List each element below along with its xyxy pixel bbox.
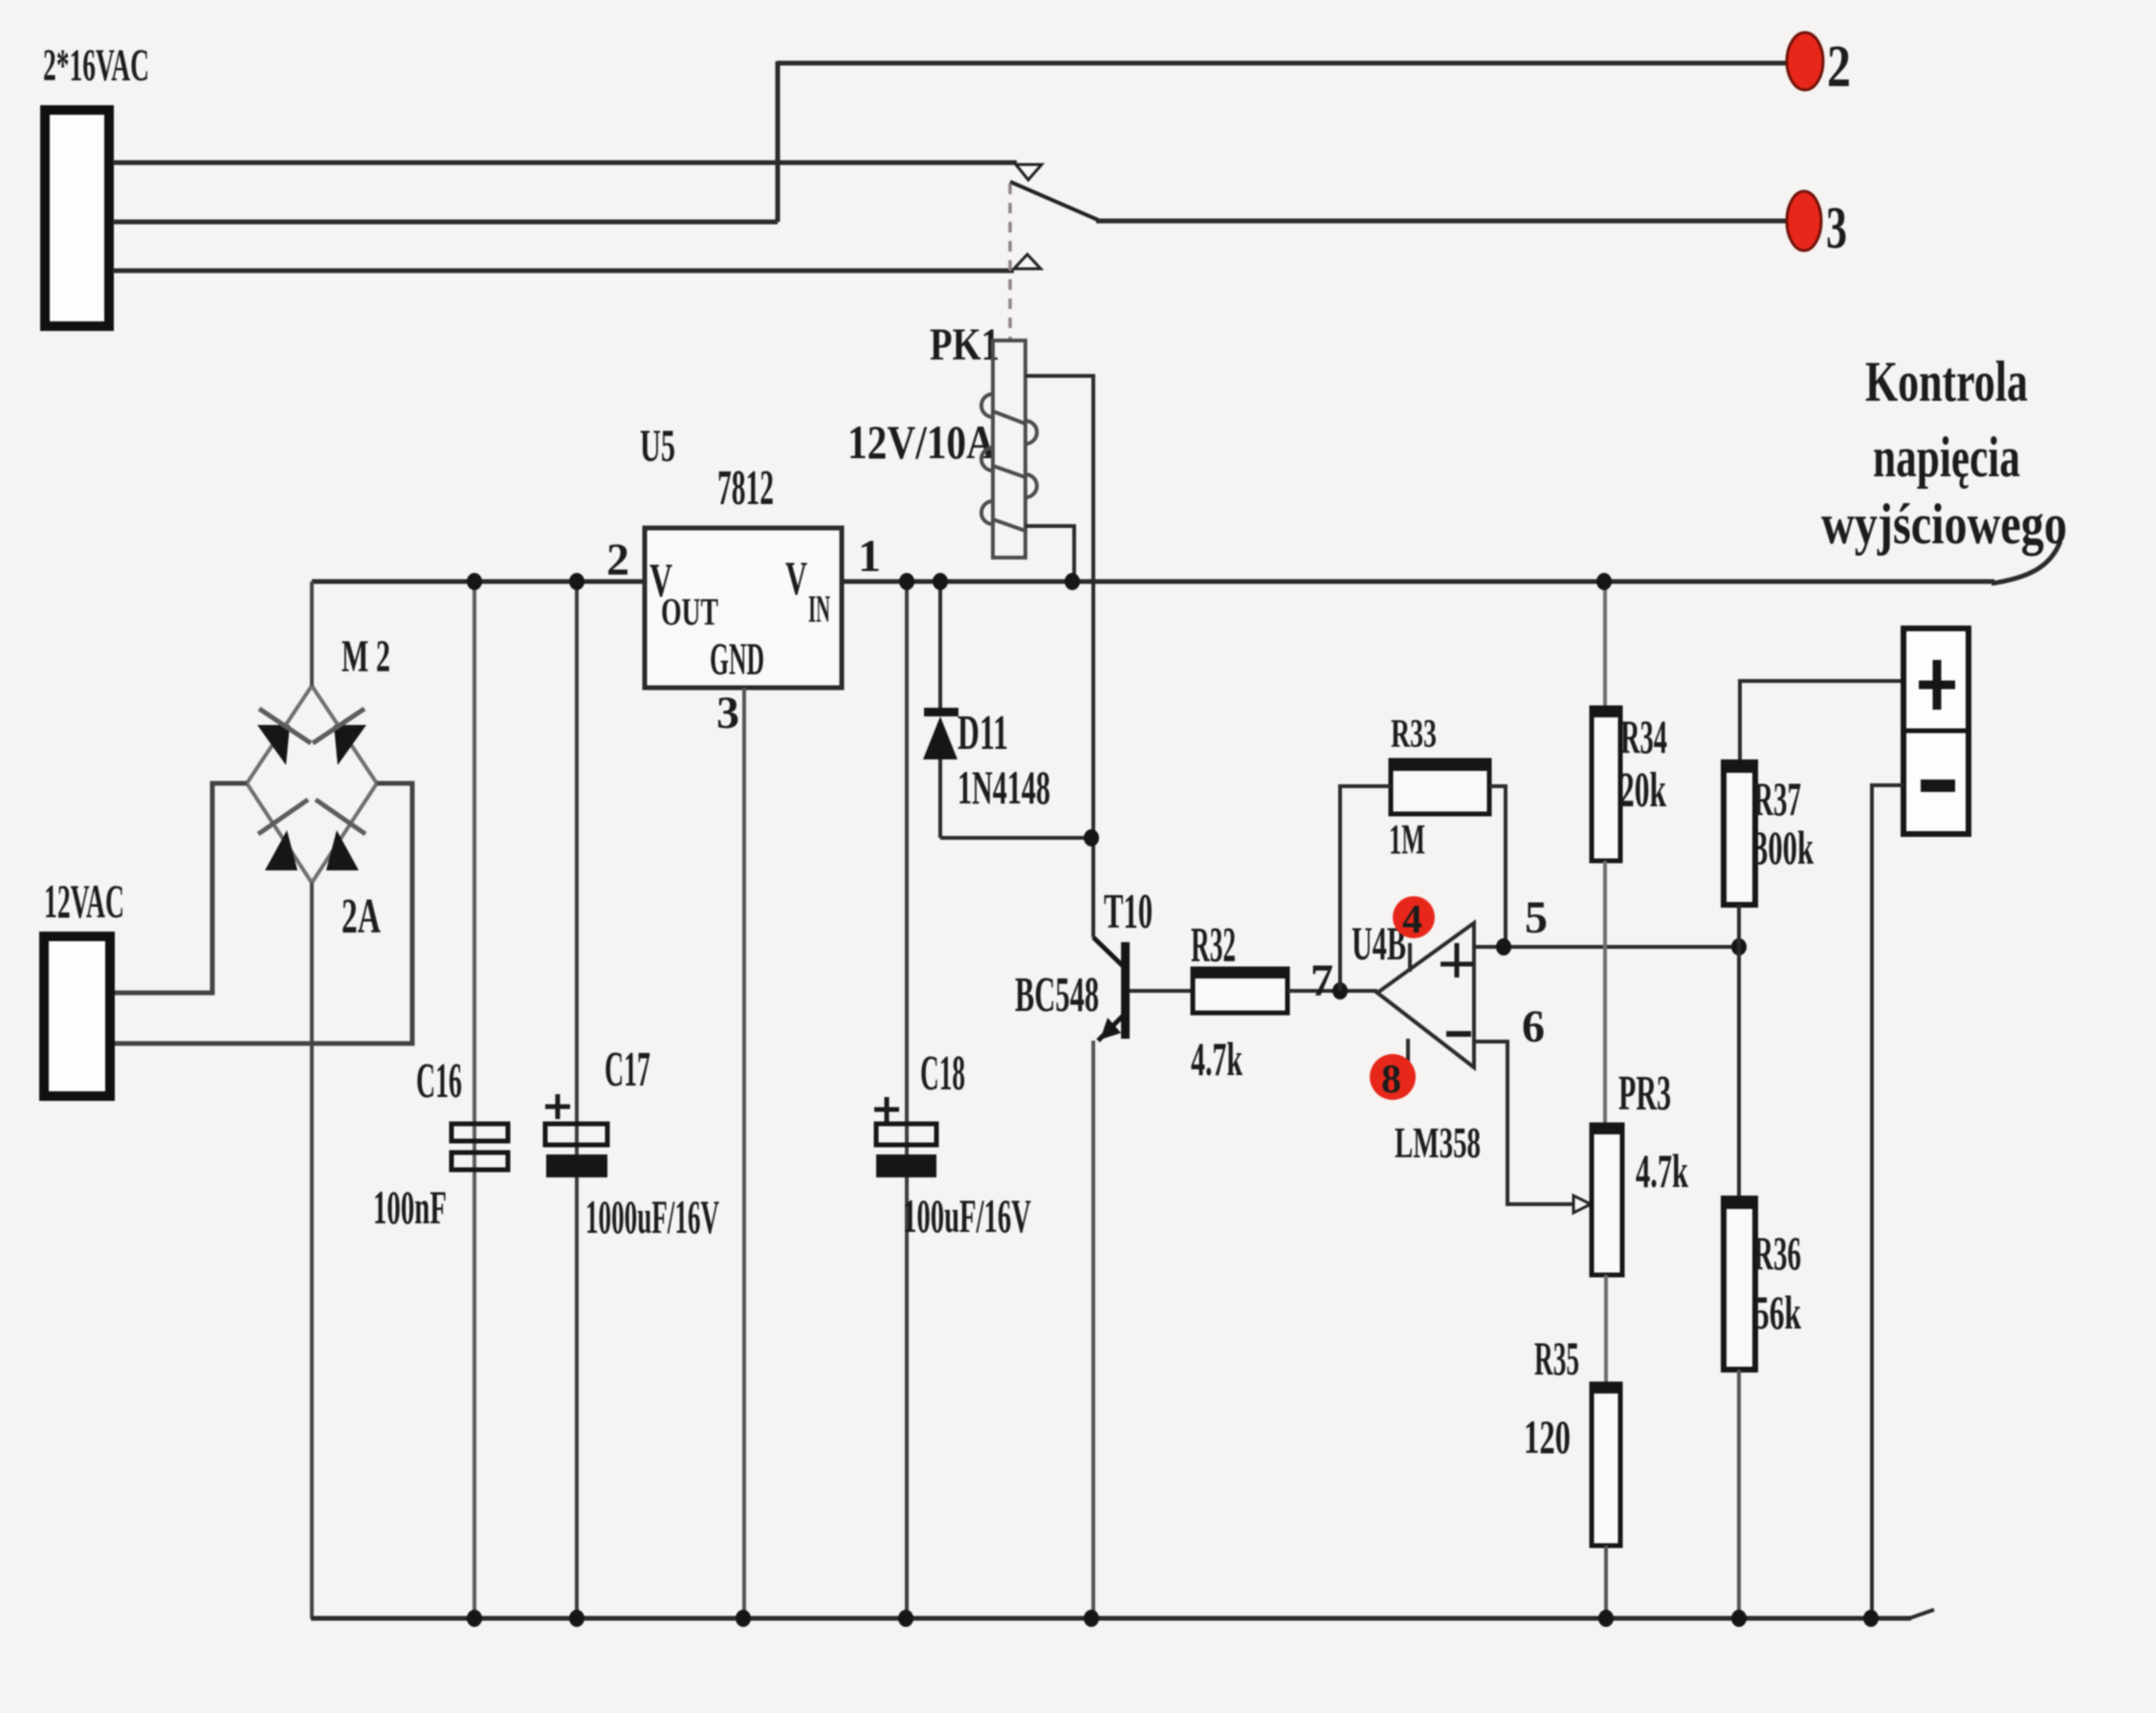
capacitor C18 branch wire: [905, 582, 909, 1618]
bus junction GND pin: [736, 1610, 751, 1627]
op-amp plus input mark: [1441, 943, 1473, 977]
svg-text:PR3: PR3: [1618, 1066, 1671, 1121]
capacitor C18 plus sign: [874, 1097, 899, 1122]
wire bridge bottom to bus: [310, 883, 314, 1618]
svg-text:V: V: [785, 551, 807, 604]
ground bus: [311, 1616, 1911, 1621]
svg-text:3: 3: [1826, 196, 1847, 261]
svg-text:napięcia: napięcia: [1873, 426, 2020, 489]
wire bridge right to 12VAC bottom: [114, 783, 412, 1043]
rail junction relay: [1065, 573, 1080, 590]
bus junction R35: [1598, 1610, 1614, 1627]
resistor R36: [1724, 1198, 1755, 1370]
resistor R37: [1724, 762, 1755, 905]
svg-text:12V/10A: 12V/10A: [847, 415, 995, 469]
svg-text:C17: C17: [605, 1043, 650, 1097]
svg-text:300k: 300k: [1753, 821, 1814, 874]
op-amp power stub pin8: [1408, 943, 1412, 972]
svg-text:D11: D11: [957, 706, 1008, 760]
connector J2 12VAC: [44, 936, 110, 1096]
U5 GND pin wire: [742, 688, 746, 1618]
main rail VIN side: [840, 580, 1994, 584]
svg-text:R36: R36: [1753, 1226, 1801, 1280]
svg-text:7: 7: [1310, 955, 1333, 1006]
pin5 junction with R33: [1496, 938, 1511, 955]
diode D11: [924, 708, 958, 716]
svg-text:1N4148: 1N4148: [957, 760, 1050, 814]
bridge diode upper-left: [257, 725, 290, 765]
pin5 junction with R37 branch: [1731, 938, 1747, 955]
bus junction emitter: [1084, 1610, 1099, 1627]
svg-text:C16: C16: [416, 1054, 462, 1109]
bridge diode lower-left: [265, 830, 297, 870]
resistor R32: [1193, 969, 1287, 1013]
bus junction C18: [898, 1610, 913, 1627]
relay actuator dashed link: [1008, 184, 1012, 340]
resistor R34 branch from rail: [1603, 582, 1607, 708]
node 7 junction: [1332, 982, 1348, 999]
wire to terminal 3: [1096, 219, 1788, 224]
regulator U5 body: [645, 528, 842, 688]
wire relay coil bottom to rail: [1025, 526, 1074, 580]
output plus mark: [1919, 660, 1955, 710]
wire W2 middle secondary horizontal: [113, 220, 778, 225]
bus junction C16: [467, 1610, 482, 1627]
rail junction C17: [569, 573, 584, 590]
svg-text:BC548: BC548: [1015, 968, 1099, 1022]
wire PR3 to R35: [1604, 1275, 1608, 1384]
svg-text:100nF: 100nF: [373, 1180, 447, 1234]
resistor R34: [1592, 708, 1620, 861]
wire W1 top secondary: [113, 161, 1017, 165]
terminal node 3 red dot: [1787, 191, 1821, 251]
svg-text:R34: R34: [1620, 710, 1667, 763]
svg-text:2A: 2A: [341, 889, 381, 944]
svg-text:2: 2: [606, 535, 629, 585]
connector J1 2*16VAC: [45, 110, 109, 326]
terminal node 2 red dot: [1787, 33, 1823, 90]
svg-text:1000uF/16V: 1000uF/16V: [585, 1190, 719, 1243]
bus end tail: [1909, 1610, 1934, 1618]
svg-text:U5: U5: [640, 421, 675, 472]
svg-text:3: 3: [716, 688, 739, 738]
svg-text:R37: R37: [1753, 772, 1801, 825]
wire R33 left leg to node 7: [1340, 786, 1391, 991]
junction rail R34: [1596, 573, 1612, 590]
wire R37 to pin5 net: [1737, 905, 1741, 1198]
svg-text:2: 2: [1827, 34, 1851, 99]
relay PK1 coil body: [981, 340, 1037, 558]
wire minus terminal to bus: [1872, 785, 1903, 1618]
wire W3 bottom secondary: [113, 269, 1014, 274]
wire R36 to bus: [1737, 1370, 1741, 1618]
diode D11 branch from rail: [938, 582, 942, 708]
red pin circle 8: [1370, 1054, 1416, 1100]
relay switch arm: [1010, 182, 1098, 220]
svg-text:1: 1: [858, 531, 881, 582]
capacitor C16 plates: [451, 1124, 508, 1141]
bridge diode lower-right: [326, 830, 359, 870]
bus junction R36: [1731, 1610, 1747, 1627]
op-amp U4B: [1377, 923, 1474, 1067]
svg-text:5: 5: [1525, 892, 1548, 943]
wire W2 top run to terminal 2: [778, 61, 1788, 66]
wire R32 to op-amp: [1287, 989, 1377, 993]
resistor R33: [1391, 760, 1489, 814]
svg-text:100uF/16V: 100uF/16V: [903, 1189, 1031, 1242]
svg-text:8: 8: [1381, 1058, 1401, 1102]
svg-text:IN: IN: [808, 587, 830, 630]
bus junction minus wire: [1863, 1610, 1879, 1627]
capacitor C17 branch wire: [575, 582, 579, 1618]
rail junction C16: [467, 573, 482, 590]
svg-text:GND: GND: [710, 634, 764, 685]
capacitor C18 plates: [876, 1124, 936, 1145]
svg-text:R32: R32: [1191, 918, 1236, 973]
relay switch fixed contact upper: [1016, 165, 1042, 180]
wire bridge top to rail: [310, 582, 314, 686]
svg-text:wyjściowego: wyjściowego: [1821, 493, 2067, 556]
svg-text:1M: 1M: [1389, 816, 1425, 863]
capacitor C16 branch wire: [473, 582, 476, 1618]
svg-text:T10: T10: [1104, 885, 1153, 939]
pin 6 wire: [1474, 1042, 1573, 1204]
svg-text:M 2: M 2: [341, 631, 390, 682]
wire R33 right leg to pin5 net: [1489, 786, 1506, 947]
op-amp power stub pin4: [1406, 1039, 1410, 1065]
svg-text:OUT: OUT: [661, 590, 718, 633]
svg-text:4.7k: 4.7k: [1191, 1032, 1243, 1086]
svg-text:2*16VAC: 2*16VAC: [43, 40, 149, 91]
resistor R35: [1592, 1384, 1620, 1546]
bridge M2 diamond: [247, 686, 377, 883]
svg-text:R35: R35: [1534, 1331, 1579, 1385]
rail junction D11: [933, 573, 948, 590]
svg-text:20k: 20k: [1619, 763, 1666, 818]
wire W2 vertical riser: [776, 61, 781, 222]
output terminal block: [1903, 628, 1969, 834]
svg-text:Kontrola: Kontrola: [1865, 350, 2028, 413]
main rail VOUT side: [312, 580, 647, 584]
svg-text:56k: 56k: [1754, 1285, 1801, 1339]
wire D11 anode to collector net: [940, 836, 1093, 840]
relay switch fixed contact lower: [1014, 254, 1041, 269]
rail junction C18: [899, 573, 914, 590]
junction collector net: [1084, 829, 1099, 846]
wire relay coil top to collector net: [1025, 376, 1093, 937]
red pin circle 4: [1393, 896, 1435, 938]
capacitor C17 plus sign: [545, 1094, 570, 1119]
wire T10 emitter to bus: [1091, 1041, 1095, 1618]
callout tail: [1991, 541, 2060, 583]
svg-text:C18: C18: [920, 1046, 965, 1101]
svg-text:PK1: PK1: [930, 319, 1000, 370]
svg-text:6: 6: [1522, 1001, 1545, 1052]
svg-text:LM358: LM358: [1395, 1118, 1481, 1167]
wire R35 to bus: [1604, 1546, 1608, 1618]
svg-text:120: 120: [1524, 1410, 1571, 1463]
output minus mark: [1921, 780, 1955, 792]
wire plus terminal to R37: [1740, 681, 1903, 762]
potentiometer PR3: [1592, 1125, 1622, 1275]
PR3 wiper arrow: [1573, 1196, 1591, 1213]
svg-text:R33: R33: [1391, 713, 1437, 757]
bus junction C17: [569, 1610, 584, 1627]
svg-text:4: 4: [1402, 898, 1422, 942]
wire bridge left to 12VAC top: [114, 783, 247, 993]
capacitor C17 plates: [545, 1124, 607, 1145]
bridge diode upper-right: [334, 725, 366, 765]
svg-text:7812: 7812: [717, 461, 774, 516]
svg-text:12VAC: 12VAC: [44, 874, 124, 928]
wire R34 to PR3: [1603, 861, 1607, 1125]
op-amp minus input mark: [1446, 1031, 1471, 1037]
transistor T10: [1093, 937, 1193, 1041]
svg-text:4.7k: 4.7k: [1636, 1144, 1688, 1197]
pin 5 wire: [1474, 945, 1739, 949]
